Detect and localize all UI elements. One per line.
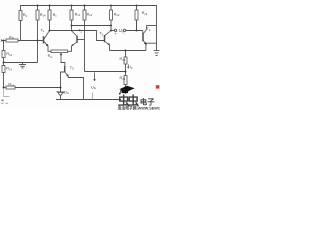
wire R15h to zener node bbox=[15, 87, 61, 89]
resistor R3 bbox=[19, 11, 22, 21]
T3 emitter diagonal with arrow bbox=[105, 42, 110, 45]
svg-text:虫虫电子网,WWW.SEWORD: 虫虫电子网,WWW.SEWORD bbox=[118, 106, 160, 111]
T4 collector diagonal bbox=[143, 26, 146, 34]
wire left bias column top bbox=[3, 41, 5, 51]
Rw wiper arrow bbox=[60, 53, 62, 61]
resistor R12 bbox=[2, 51, 5, 58]
wire T4 emitter node right to ground bbox=[146, 43, 157, 50]
terminal circle 1 bbox=[114, 29, 116, 31]
wire circle2 to T4 base node bbox=[126, 30, 143, 32]
faint bottom-left smudge bbox=[1, 100, 8, 104]
transistor T1 base bar bbox=[43, 36, 45, 43]
wire lower-left node to R15h bbox=[4, 87, 7, 89]
wire Rc bottom lead to T1 collector node bbox=[49, 20, 51, 31]
wire T1 collector node to T3 base (second stage) bbox=[50, 31, 105, 41]
wire T4 emitter to emitters wire bbox=[145, 44, 147, 51]
tail node wire to R15/R16 chain bbox=[85, 71, 126, 73]
wire R15 to R16 bbox=[125, 64, 127, 76]
resistor Rc2 bbox=[83, 10, 86, 20]
component labels bbox=[6, 11, 151, 95]
wire Rc3 top lead bbox=[136, 6, 138, 11]
resistor R15 horizontal bottom-left bbox=[6, 86, 15, 89]
T2 emitter diagonal with arrow bbox=[72, 42, 77, 46]
junction dots bbox=[3, 5, 147, 89]
resistor Rc bbox=[48, 10, 51, 20]
wire ground branch bbox=[4, 62, 38, 64]
logo: graduation cap bbox=[119, 86, 135, 95]
potentiometer Rw bbox=[51, 50, 68, 53]
wire ground stem bbox=[22, 63, 24, 65]
wire input to R11 bbox=[1, 40, 6, 42]
terminal circle 2 bbox=[123, 29, 125, 31]
T5 base wire from zener column bbox=[61, 72, 65, 88]
wire T4 base node up (Rc3 lead) bbox=[136, 20, 138, 31]
wire T4 collector to rail corner bbox=[146, 25, 156, 27]
ground left bbox=[19, 65, 26, 69]
current arrow I0 bbox=[128, 64, 129, 68]
T3 collector diagonal bbox=[105, 31, 111, 36]
wire Rc1 bottom lead to T2 collector bbox=[71, 20, 73, 31]
wire output node to terminal circle 1 bbox=[111, 30, 114, 32]
wire Rc2 long lead down to tail node wire bbox=[84, 20, 86, 72]
T5 emitter diagonal with arrow bbox=[65, 72, 68, 77]
wire between R12 and R13 bbox=[3, 58, 5, 66]
wire wiper to T5 collector bbox=[61, 61, 65, 66]
transistor T3 base bar bbox=[104, 35, 106, 42]
wire R14 top lead bbox=[37, 6, 39, 11]
T1 collector diagonal bbox=[44, 31, 50, 40]
wire Rc3 lead down to T4 base node bbox=[136, 20, 138, 31]
wire R14 lead down through input node to ground wire bbox=[37, 20, 39, 63]
ground right bbox=[154, 51, 160, 56]
resistor R16 bbox=[124, 76, 127, 85]
wire T3 emitter down to emitters wire bbox=[109, 45, 111, 51]
wire Rc4 top lead bbox=[110, 6, 112, 11]
resistor Rc4 bbox=[110, 10, 113, 20]
transistor T5 (tail current source) base bar bbox=[64, 66, 66, 72]
wire Rc2 top lead bbox=[84, 6, 86, 11]
wire T2 emitter down to Rw right end bbox=[68, 46, 72, 51]
wire R13 down to lower-left node bbox=[3, 73, 5, 88]
wire faint stub to rail bbox=[91, 93, 93, 100]
second pair emitters wire bbox=[110, 50, 146, 52]
wire T5 emitter to bottom rail bbox=[68, 78, 83, 100]
wire R16 down under logo bbox=[125, 85, 127, 95]
wire tail chain top bbox=[125, 51, 127, 58]
svg-text:电子: 电子 bbox=[140, 98, 155, 107]
T2 collector diagonal bbox=[72, 31, 77, 36]
resistor R13 bbox=[2, 66, 5, 73]
logo: red brand text bbox=[118, 85, 167, 110]
wire Rc4 lead down to output node bbox=[110, 20, 112, 31]
T1 emitter diagonal with arrow bbox=[44, 42, 48, 46]
T4 emitter diagonal with arrow bbox=[143, 41, 146, 44]
transistor T2 base bar bbox=[76, 36, 78, 43]
zener diode Dw bbox=[60, 88, 62, 92]
resistor R11 (horizontal) bbox=[6, 39, 18, 42]
wire T1 emitter down to Rw bbox=[48, 46, 51, 51]
bottom rail bbox=[56, 99, 121, 101]
current arrow near tail bbox=[94, 73, 96, 81]
transistor T4 base bar bbox=[142, 31, 144, 34]
resistor R15 (tail chain) bbox=[124, 57, 127, 64]
resistor Rc1 bbox=[70, 10, 73, 20]
wire Rc1 top lead bbox=[71, 6, 73, 11]
wire R3 lead down to input node bbox=[20, 21, 22, 41]
wire R11 to T1 base bbox=[18, 40, 43, 42]
T2 base wire to bias line bbox=[77, 39, 84, 41]
top supply rail bbox=[21, 6, 157, 26]
resistor R14 bbox=[36, 10, 39, 20]
wire T2 collector tap to output node bbox=[72, 25, 112, 27]
resistor Rc3 bbox=[135, 10, 138, 20]
input terminal arrow bbox=[1, 40, 3, 42]
wire Rc top lead bbox=[49, 6, 51, 11]
